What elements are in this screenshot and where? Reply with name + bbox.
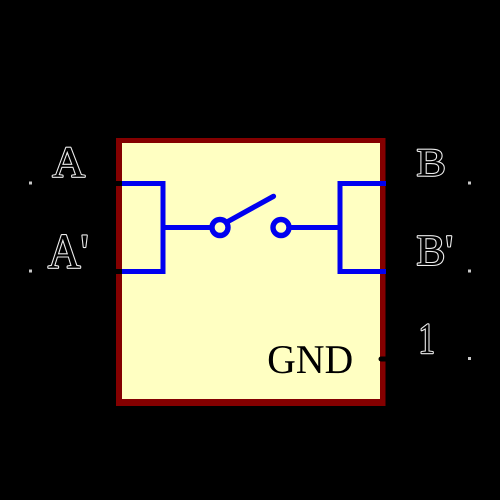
component body U1 (switch symbol outline, dark red)	[116, 138, 386, 406]
pin label A'	[48, 235, 86, 268]
switch lever (open)	[227, 196, 274, 222]
pin B endpoint dot	[468, 182, 471, 185]
pin label B	[418, 150, 444, 176]
pin 1 (GND)	[381, 357, 470, 362]
pin A'	[30, 269, 122, 274]
component body U1 fill (pale yellow)	[122, 143, 380, 399]
pin A' endpoint dot	[29, 270, 32, 273]
pin A	[30, 181, 122, 186]
wire: common lead to switch pole	[163, 225, 212, 230]
pin label 1	[422, 324, 433, 353]
pin label B'	[418, 236, 452, 265]
pin label A	[53, 148, 85, 177]
wire: throw lead to right bracket	[290, 225, 341, 230]
pin B	[387, 181, 471, 186]
wire: right bracket from pin B to pin B'	[340, 184, 386, 272]
switch contact circle (left pole)	[212, 220, 228, 236]
pin 1 endpoint dot	[468, 357, 471, 360]
pin B' endpoint dot	[468, 270, 471, 273]
wire: left bracket from pin A to pin A'	[116, 184, 163, 272]
pin B'	[387, 269, 471, 274]
switch contact circle (right throw)	[273, 220, 289, 236]
pin A endpoint dot	[29, 182, 32, 185]
pin name GND	[269, 346, 352, 373]
